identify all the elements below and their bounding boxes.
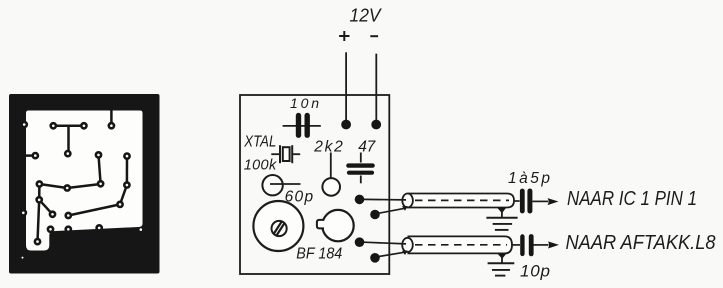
capacitor C 10n [283,116,321,136]
capacitor 10p [522,237,548,254]
node pad out1 [355,195,365,205]
wire gnd2 to coax2 braid [379,252,405,256]
resistor 100k [262,175,300,195]
crystal X1 [271,145,300,163]
ground symbol 1 [486,218,517,230]
svg-text:XTAL: XTAL [243,133,276,150]
PCB trace vertical right [126,156,129,185]
PCB trace vertical long [38,184,40,242]
wire gnd1 to coax1 braid [379,208,406,213]
svg-text:NAAR IC 1 PIN 1: NAAR IC 1 PIN 1 [567,188,697,210]
node pad gnd1 [370,210,380,220]
svg-text:BF 184: BF 184 [296,246,342,263]
PCB board copper side [9,94,160,274]
arrow to L8 [548,241,559,248]
wire + supply [345,52,347,124]
capacitor 47 [348,153,372,184]
junction coax2 braid [402,250,408,255]
svg-text:12V: 12V [350,6,383,26]
svg-text:10p: 10p [520,262,550,281]
svg-text:NAAR AFTAKK.L8: NAAR AFTAKK.L8 [566,231,717,254]
node + pad [341,120,351,130]
svg-text:10n: 10n [290,95,319,111]
wire - supply [375,54,377,125]
svg-text:100k: 100k [244,158,277,174]
capacitor 1a5p [522,191,548,211]
node pad out2 [355,237,365,247]
PCB trace vertical [99,155,101,184]
PCB pad holes [22,123,143,258]
wire out1 to coax1 [364,198,406,201]
PCB trace stub to left border [25,154,35,157]
minus terminal [370,35,378,37]
node - pad [371,120,381,130]
PCB trace diagonal to pour [68,204,120,215]
PCB trace diagonal [120,185,127,204]
resistor 2k2 [322,153,340,196]
trimmer capacitor 60p [253,201,303,251]
PCB trace T-bar row1 [53,126,84,154]
component board outline [240,95,389,274]
coax1 braid connection [497,207,507,218]
plus terminal [339,31,349,41]
coax cable 2 body [402,236,520,253]
PCB trace diagonal short [39,200,52,215]
coax cable 1 body [402,194,519,208]
node pad gnd2 [370,253,380,263]
PCB trace horizontal row3 [39,184,100,188]
wire out2 to coax2 [364,242,406,244]
transistor BF184 [317,210,354,241]
junction coax1 braid [402,206,408,211]
arrow to IC1 [548,198,559,205]
PCB trace stub to top border [110,109,113,126]
svg-text:2k2: 2k2 [313,139,343,156]
PCB pads [19,121,130,246]
ground symbol 2 [488,263,515,275]
coax2 braid connection [497,253,507,263]
